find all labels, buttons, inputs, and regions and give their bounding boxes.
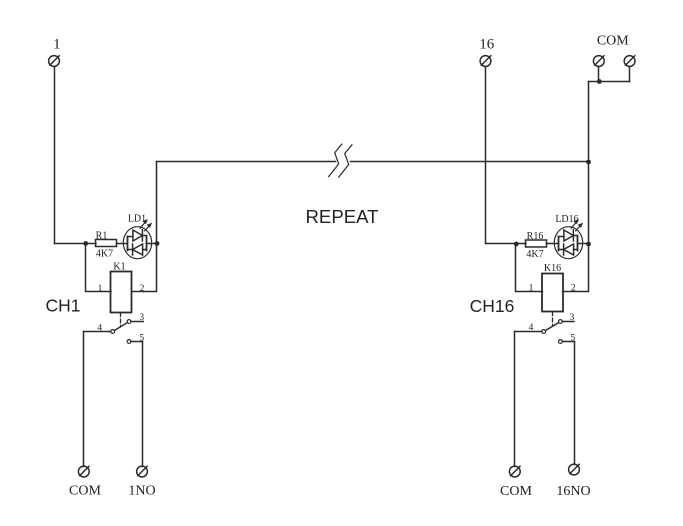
wire R1 to LD1 xyxy=(117,243,128,245)
svg-text:COM: COM xyxy=(69,483,101,498)
svg-text:4K7: 4K7 xyxy=(526,249,543,260)
svg-text:3: 3 xyxy=(570,313,575,323)
svg-text:REPEAT: REPEAT xyxy=(305,206,378,227)
terminal COM (CH1) xyxy=(78,466,89,477)
wire COM corner down through nodes to K16 pin 2 xyxy=(563,82,589,292)
svg-text:4: 4 xyxy=(529,323,534,333)
switch contact pin 4 xyxy=(84,330,115,334)
svg-text:2: 2 xyxy=(571,283,576,293)
switch arm 4 to 3 xyxy=(115,323,128,331)
svg-text:1: 1 xyxy=(98,284,103,294)
svg-text:LD1: LD1 xyxy=(128,214,146,225)
junction bus node E xyxy=(586,160,591,165)
wire node C horizontal to R16 xyxy=(486,243,527,245)
relay coil K16 xyxy=(542,274,563,312)
svg-text:R1: R1 xyxy=(96,231,108,242)
switch contact pin 3 xyxy=(127,320,143,324)
svg-text:3: 3 xyxy=(139,313,144,323)
LED LD16 xyxy=(554,219,583,259)
svg-text:16NO: 16NO xyxy=(556,484,590,499)
terminal 16NO xyxy=(569,464,580,475)
svg-text:16: 16 xyxy=(479,37,495,53)
break symbol right stroke xyxy=(339,145,352,177)
wire R16 to LD16 xyxy=(547,243,559,245)
svg-text:2: 2 xyxy=(140,284,145,294)
resistor R1 xyxy=(96,240,117,247)
switch contact pin 4 (CH16) xyxy=(515,330,546,334)
svg-text:LD16: LD16 xyxy=(555,214,578,225)
junction node A xyxy=(83,241,88,246)
wire node A down to K1 pin 1 xyxy=(86,244,112,292)
svg-text:CH1: CH1 xyxy=(45,296,80,316)
wire terminal 16 down xyxy=(485,67,487,244)
wire COM horizontal xyxy=(589,81,630,83)
switch contact pin 3 (CH16) xyxy=(559,320,574,324)
terminal COM (CH16) xyxy=(509,466,520,477)
svg-text:K16: K16 xyxy=(544,263,561,274)
svg-text:CH16: CH16 xyxy=(470,296,515,316)
wire pin 5 down to 1NO terminal xyxy=(142,342,144,467)
svg-text:1NO: 1NO xyxy=(128,483,155,498)
wire bus corner down through node B to K1 pin 2 xyxy=(132,162,157,292)
wire node C down to K16 pin 1 xyxy=(516,244,543,292)
svg-text:K1: K1 xyxy=(113,262,125,273)
terminal 16 xyxy=(480,56,491,67)
wire pin 5 down to 16NO terminal xyxy=(574,342,576,465)
terminal COM top right xyxy=(624,56,635,67)
wire LD1 to node B xyxy=(147,243,157,245)
junction node C xyxy=(514,242,519,247)
dashed actuator link K16 xyxy=(552,312,554,326)
resistor R16 xyxy=(526,240,547,247)
break symbol left stroke xyxy=(329,144,342,177)
wire pin 4 down to COM terminal (CH16) xyxy=(514,332,516,467)
wire terminal 1 down xyxy=(54,67,56,244)
LED LD1 xyxy=(123,219,152,259)
junction node F xyxy=(597,79,602,84)
svg-text:4K7: 4K7 xyxy=(96,249,113,260)
svg-text:1: 1 xyxy=(529,283,534,293)
switch contact pin 5 (CH16) xyxy=(559,340,575,344)
junction node B xyxy=(155,241,160,246)
svg-text:4: 4 xyxy=(97,324,102,334)
svg-text:COM: COM xyxy=(597,34,629,49)
wire LD16 to node D xyxy=(578,243,589,245)
terminal 1NO xyxy=(137,466,148,477)
wire COM left terminal down xyxy=(598,67,600,82)
dashed actuator link K1 xyxy=(120,313,122,327)
terminal COM top left xyxy=(593,56,604,67)
svg-text:1: 1 xyxy=(53,37,61,53)
wire bus right segment xyxy=(351,161,589,163)
wire node A horizontal to R1 xyxy=(55,243,97,245)
wire pin 4 down to COM terminal xyxy=(83,332,85,467)
svg-text:COM: COM xyxy=(500,484,532,499)
wire bus left segment xyxy=(157,161,336,163)
relay coil K1 xyxy=(111,272,132,313)
svg-text:R16: R16 xyxy=(527,231,544,242)
switch arm 4 to 3 (CH16) xyxy=(546,323,559,331)
junction node D xyxy=(586,242,591,247)
terminal 1 xyxy=(49,56,60,67)
wire COM right terminal down xyxy=(629,67,631,82)
switch contact pin 5 xyxy=(127,340,142,344)
